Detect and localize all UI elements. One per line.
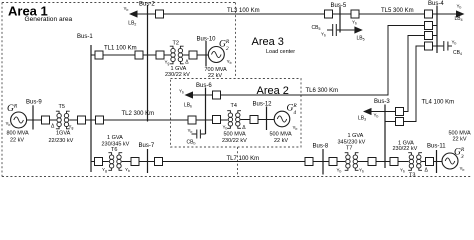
svg-text:T6: T6 [111, 147, 117, 153]
svg-text:TL2 300 Km: TL2 300 Km [122, 111, 155, 117]
svg-text:Area 3: Area 3 [252, 36, 284, 48]
wire T7 through Bus-3 to T3 [358, 161, 409, 163]
svg-text:500 MVA: 500 MVA [224, 131, 247, 137]
svg-text:22 kV: 22 kV [453, 137, 467, 143]
wire TL1 row Bus-1 to T2 [91, 54, 170, 56]
capacitor CB5 plates [327, 24, 336, 36]
svg-text:Yb: Yb [223, 124, 228, 130]
svg-text:Bus-12: Bus-12 [253, 102, 273, 108]
capacitor CB4 plates [444, 41, 452, 51]
svg-text:Bus-1: Bus-1 [77, 34, 93, 40]
wire load LB4 stub at Bus-4 [437, 13, 456, 15]
svg-text:Δ: Δ [425, 168, 429, 174]
transformer T2 windings [170, 46, 184, 64]
wire bottom row Bus-1 to T6 [91, 161, 109, 163]
wire T4 to G4 [241, 119, 275, 121]
bus Bus-7 [147, 149, 149, 173]
breaker sq2 on Bus-4 TL6 [425, 22, 433, 30]
transformer T6 windings [108, 153, 122, 171]
svg-text:Yb: Yb [125, 167, 130, 173]
load arrow LB2 at Bus-2 [129, 10, 138, 17]
svg-text:T2: T2 [173, 41, 179, 47]
Area 3 dashed left boundary [235, 3, 237, 79]
breaker between T6 and Bus-7 [131, 158, 139, 166]
transformer T7 windings [345, 153, 359, 171]
bus Bus-3 [384, 105, 386, 169]
svg-text:Bus-3: Bus-3 [374, 99, 390, 105]
breaker on TL3 left of Bus-5 [325, 10, 333, 18]
svg-text:Yb: Yb [188, 128, 193, 134]
svg-text:Yg: Yg [102, 167, 107, 173]
svg-text:Yb: Yb [457, 4, 462, 10]
load arrow LBb at Bus-6 [185, 91, 194, 98]
load arrow LB5 at Bus-5 [354, 26, 362, 33]
Area 1 dashed boundary left edge [1, 3, 3, 177]
svg-text:230/22 kV: 230/22 kV [222, 138, 247, 144]
svg-text:Bus-10: Bus-10 [197, 37, 217, 43]
svg-text:22 kV: 22 kV [274, 138, 288, 144]
breaker sq1 on Bus-4 TL5 [425, 10, 433, 18]
svg-text:230/22 kV: 230/22 kV [165, 72, 190, 78]
svg-text:Yb: Yb [321, 31, 326, 37]
transformer T3 windings [408, 153, 422, 171]
breaker on TL2 left of Bus-6 [188, 116, 196, 124]
svg-text:Bus-11: Bus-11 [427, 144, 446, 150]
svg-text:Bus-4: Bus-4 [428, 1, 444, 7]
breaker between T4 and Bus-12 [250, 116, 258, 124]
load arrow LB3 at Bus-3 [363, 108, 372, 115]
svg-text:T7: T7 [346, 145, 352, 151]
breaker on TL5 right of Bus-5 [351, 10, 359, 18]
svg-text:Yb: Yb [400, 168, 405, 174]
svg-text:Δ: Δ [242, 125, 246, 131]
wire TL7 row T6 through Bus-7 Bus-8 to T7 [122, 161, 346, 163]
svg-text:500 MVA: 500 MVA [270, 132, 293, 138]
wire load LB3 stub at Bus-3 [372, 111, 386, 113]
svg-text:Yb: Yb [452, 40, 457, 46]
generator G3 circle [442, 153, 458, 169]
svg-text:Δ: Δ [51, 123, 55, 129]
svg-text:LB3: LB3 [358, 116, 366, 122]
svg-text:LB5: LB5 [357, 36, 365, 42]
wire load LB5 stub at Bus-5 [340, 29, 354, 31]
wire CBb stub at Bus-6 bottom [201, 133, 206, 135]
wire G1 to T5 [27, 119, 57, 121]
svg-text:T3: T3 [409, 172, 415, 178]
wire load LBb stub at Bus-6 [193, 94, 206, 96]
breaker between Bus-1 and T6 [95, 158, 103, 166]
svg-text:22 kV: 22 kV [10, 138, 24, 144]
svg-text:TL3 100 Km: TL3 100 Km [227, 8, 260, 14]
svg-text:CB4: CB4 [453, 50, 462, 56]
wire load LB2 stub at Bus-2 [137, 13, 148, 15]
breaker right of Bus-6 before T4 [213, 116, 221, 124]
breaker on TL7 left of Bus-8 [305, 158, 313, 166]
load arrow LB4 at Bus-4 [456, 10, 465, 17]
svg-text:LBb: LBb [184, 103, 192, 109]
wire TL2 row T5 through Bus-1 Bus-2 Bus-6 to T4 [69, 119, 228, 121]
breaker on TL1 left of Bus-2 [135, 51, 143, 59]
wire CB5 stub at Bus-5 [337, 29, 340, 31]
svg-text:TL4 100 Km: TL4 100 Km [422, 99, 455, 105]
svg-text:T4: T4 [231, 103, 237, 109]
svg-text:800 MVA: 800 MVA [7, 131, 30, 137]
breaker between T3 and Bus-11 [426, 158, 434, 166]
svg-text:Yb: Yb [460, 166, 465, 172]
breaker right of Bus-2 before T2 [156, 51, 164, 59]
bus Bus-4 [436, 6, 438, 54]
dashed boundary below Area 2 [237, 147, 239, 177]
svg-text:22 kV: 22 kV [208, 73, 222, 79]
svg-text:Yb: Yb [6, 121, 11, 127]
svg-text:Bus-8: Bus-8 [313, 144, 329, 150]
breaker right of Bus-9 [42, 116, 50, 124]
svg-text:TL5 300 Km: TL5 300 Km [381, 8, 414, 14]
wire TL6 from Bus-6 up to Bus-4 [206, 26, 438, 96]
svg-text:22/230 kV: 22/230 kV [49, 138, 74, 144]
wire CB4 stub at Bus-4 [437, 45, 443, 47]
bus Bus-11 [436, 150, 438, 173]
bus Bus-9 [32, 105, 34, 129]
breaker between T7 and Bus-3 [368, 158, 376, 166]
svg-text:TL7 100 Km: TL7 100 Km [227, 156, 260, 162]
breaker sq3 on Bus-4 TL4 circuit 1 [425, 32, 433, 40]
breaker sq4 on Bus-4 TL4 circuit 2 [425, 42, 433, 50]
svg-text:Yb: Yb [179, 89, 184, 95]
svg-text:Generation area: Generation area [25, 16, 73, 23]
svg-text:Yb: Yb [352, 20, 357, 26]
bus Bus-12 [266, 107, 268, 131]
svg-text:1 GVA: 1 GVA [348, 133, 364, 139]
wire TL4 circuit 2 Bus-3 to Bus-4 [385, 46, 437, 122]
svg-text:1 GVA: 1 GVA [107, 135, 123, 141]
breaker right of Bus-3 before T3 [390, 158, 398, 166]
breaker sqA on Bus-3 TL4 circuit 1 [396, 108, 404, 116]
wire T3 through Bus-11 to G3 [422, 161, 443, 163]
breaker between T2 and Bus-10 [189, 51, 197, 59]
breaker on TL3 right of Bus-2 [156, 10, 164, 18]
breaker on TL6 right of Bus-6 [213, 91, 221, 99]
svg-text:Δ: Δ [185, 59, 189, 65]
svg-text:T5: T5 [59, 104, 65, 110]
svg-text:Yb: Yb [293, 125, 298, 131]
svg-text:Bus-5: Bus-5 [331, 3, 347, 9]
breaker on TL2 right of Bus-1 [96, 116, 104, 124]
breaker between T5 and Bus-1 [78, 116, 86, 124]
svg-text:TL6 300 Km: TL6 300 Km [306, 88, 339, 94]
wire TL4 circuit 1 Bus-3 to Bus-4 [385, 36, 437, 112]
svg-text:Load center: Load center [266, 49, 295, 55]
svg-text:LB2: LB2 [128, 20, 136, 26]
transformer T4 windings [227, 111, 241, 129]
generator G2 circle [208, 47, 224, 63]
generator G4 circle [274, 111, 290, 127]
generator G1 circle [11, 112, 27, 128]
breaker on TL7 right of Bus-7 [155, 158, 163, 166]
bus Bus-8 [322, 149, 324, 175]
breaker on TL1 right of Bus-1 [95, 51, 103, 59]
svg-text:Area 2: Area 2 [257, 85, 289, 97]
svg-text:Yb: Yb [337, 167, 342, 173]
bus Bus-6 [205, 88, 207, 135]
wire T2 to G2 [183, 54, 208, 56]
Area 2 dashed box [171, 79, 302, 148]
capacitor CBb plates [192, 130, 201, 139]
svg-text:CB5: CB5 [312, 25, 321, 31]
svg-text:Yb: Yb [374, 112, 379, 118]
wire TL3/TL5 top corridor Bus-2 to Bus-4 [148, 13, 438, 15]
bus Bus-10 [205, 41, 207, 67]
svg-text:Bus-7: Bus-7 [139, 143, 155, 149]
dashed boundary bottom edge [2, 176, 472, 178]
svg-text:Yb: Yb [227, 59, 232, 65]
svg-text:CBb: CBb [187, 139, 196, 145]
svg-text:LB4: LB4 [455, 16, 463, 22]
breaker right of Bus-8 before T7 [329, 158, 337, 166]
bus Bus-2 [147, 5, 149, 122]
svg-text:Bus-9: Bus-9 [26, 100, 42, 106]
svg-text:Yb: Yb [124, 6, 129, 12]
svg-text:TL1 100 Km: TL1 100 Km [104, 46, 137, 52]
bus Bus-5 [339, 7, 341, 33]
svg-text:1GVA: 1GVA [56, 131, 71, 137]
transformer T5 windings [56, 111, 70, 129]
svg-text:Yg: Yg [165, 59, 170, 65]
bus Bus-1 [90, 45, 92, 172]
svg-text:230/22 kV: 230/22 kV [393, 146, 418, 152]
breaker sqB on Bus-3 TL4 circuit 2 [396, 118, 404, 126]
svg-text:Yb: Yb [359, 167, 364, 173]
svg-text:Bus-2: Bus-2 [139, 2, 155, 8]
svg-text:Bus-6: Bus-6 [196, 83, 212, 89]
Area 1 dashed boundary top edge [2, 2, 236, 4]
